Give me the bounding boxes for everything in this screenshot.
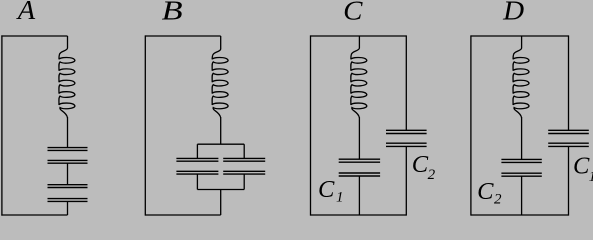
svg-text:1: 1 — [589, 169, 593, 185]
wire: B left drop — [196, 144, 198, 158]
capacitor (A lower) — [48, 185, 88, 202]
wire: B right rise — [243, 174, 245, 189]
wire: C top — [311, 35, 407, 37]
wire: D bottom — [471, 214, 569, 216]
wire: B top — [145, 35, 220, 37]
wire: B left rise — [196, 174, 198, 189]
svg-text:1: 1 — [336, 189, 344, 205]
capacitor C1 (D right) — [548, 130, 589, 146]
label C2 (circuit C) — [412, 151, 436, 183]
capacitor C2 (D middle) — [501, 159, 541, 176]
wire: B top bus — [197, 143, 244, 145]
wire: B left — [144, 35, 146, 215]
wire: A between capacitors — [67, 163, 69, 185]
wire: B coil to bus — [220, 117, 222, 144]
inductor (B) — [212, 36, 228, 118]
svg-text:C: C — [477, 178, 494, 205]
label C1 (circuit C) — [318, 176, 344, 205]
wire: C right lower — [405, 146, 407, 215]
wire: B right drop — [243, 144, 245, 158]
capacitor (B right) — [223, 158, 265, 174]
capacitor C1 (C middle) — [339, 159, 380, 176]
wire: C right upper — [405, 35, 407, 130]
wire: C C1 to bottom — [358, 176, 360, 215]
svg-text:B: B — [162, 0, 183, 25]
svg-text:D: D — [502, 0, 524, 25]
wire: A coil to C-top — [67, 117, 69, 147]
capacitor (B left) — [176, 158, 218, 174]
svg-text:C: C — [573, 153, 590, 180]
svg-text:A: A — [16, 0, 36, 25]
svg-text:C: C — [412, 151, 429, 178]
label C1 (circuit D) — [573, 153, 593, 185]
wire: D top — [471, 35, 569, 37]
wire: D coil to C2 — [521, 117, 523, 159]
wire: A top — [1, 35, 67, 37]
svg-text:2: 2 — [428, 167, 436, 183]
label C2 (circuit D) — [477, 178, 502, 207]
capacitor (A upper) — [48, 148, 88, 164]
svg-text:2: 2 — [494, 191, 502, 207]
wire: C left — [310, 35, 312, 215]
inductor (D) — [513, 36, 529, 118]
wire: A bottom — [1, 214, 67, 216]
wire: D C2 to bottom — [521, 176, 523, 215]
wire: B bus to bottom — [220, 190, 222, 216]
wire: A C-bottom to bottom — [67, 201, 69, 215]
wire: B bottom — [145, 214, 220, 216]
inductor (A) — [59, 36, 75, 118]
wire: D right upper — [568, 35, 570, 130]
wire: D left — [470, 35, 472, 215]
wire: A left — [1, 35, 3, 215]
wire: C coil to C1 — [358, 117, 360, 159]
svg-text:C: C — [318, 176, 335, 203]
wire: C bottom — [311, 214, 407, 216]
capacitor C2 (C right) — [386, 130, 427, 146]
wire: B bottom bus — [197, 189, 244, 191]
inductor (C) — [351, 36, 367, 118]
wire: D right lower — [568, 146, 570, 215]
svg-text:C: C — [343, 0, 363, 26]
